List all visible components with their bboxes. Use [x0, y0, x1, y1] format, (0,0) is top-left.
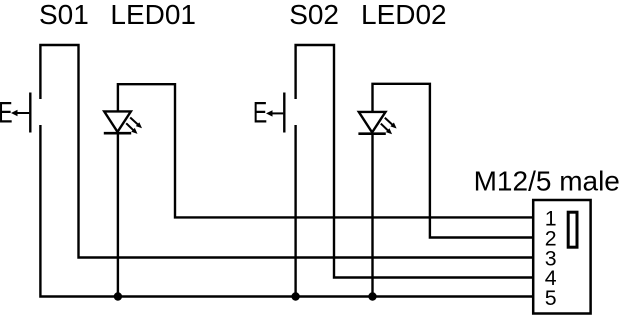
LED LED01 — [104, 111, 142, 133]
svg-text:LED01: LED01 — [110, 0, 196, 30]
wire S01 bottom to pin 5 (common) — [40, 125, 533, 297]
svg-text:LED02: LED02 — [361, 0, 447, 30]
junction LED01/common — [114, 292, 122, 300]
wire LED01 top loop to pin 1 — [118, 84, 533, 217]
wire S01 top loop to pin 3 — [40, 45, 533, 258]
wire LED02 cathode down to common — [371, 134, 373, 297]
switch S01 — [0, 93, 30, 133]
svg-text:5: 5 — [545, 286, 557, 310]
svg-text:S02: S02 — [289, 0, 339, 30]
connector keyway — [568, 212, 577, 247]
wire S02 bottom to common — [294, 125, 296, 297]
junction LED02/common — [368, 292, 376, 300]
wire LED02 top loop to pin 2 — [373, 84, 534, 238]
svg-text:M12/5 male: M12/5 male — [474, 165, 620, 196]
svg-text:E: E — [253, 97, 267, 129]
wire S02 top loop to pin 4 — [296, 45, 533, 278]
wire LED01 cathode down to common — [117, 133, 119, 296]
connector M12/5 male body — [533, 200, 590, 314]
LED LED02 — [358, 112, 396, 134]
svg-text:S01: S01 — [39, 0, 89, 30]
junction S02/common — [291, 292, 299, 300]
svg-text:E: E — [0, 97, 13, 129]
switch S02 — [253, 93, 284, 133]
